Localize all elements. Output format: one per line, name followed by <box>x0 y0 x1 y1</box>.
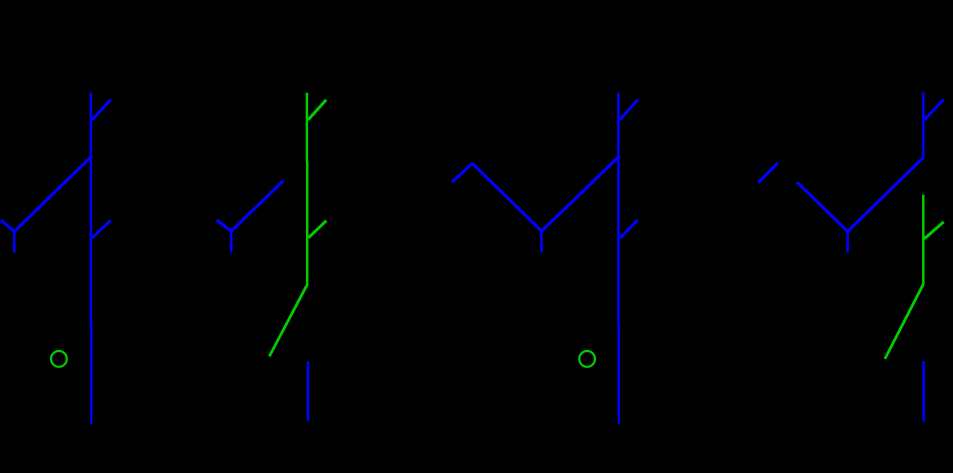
molecule 2 mid methyl bond (green) <box>308 221 326 238</box>
molecule 1 long diagonal bond <box>14 156 92 232</box>
molecule 4 bottom tail bond (blue) <box>922 361 925 422</box>
molecule 1 backbone chain upper segment <box>90 93 93 327</box>
molecule 3 oxygen atom O <box>579 351 595 367</box>
molecule 2 bottom tail bond (blue) <box>307 361 310 421</box>
molecule 4 long diagonal bond (blue) <box>848 158 924 232</box>
molecule 2 partial diagonal bond (blue) <box>231 181 283 231</box>
molecule 4 vertex stem bond (blue) <box>846 231 849 253</box>
molecule 4 mid methyl bond (green) <box>924 222 943 239</box>
molecule 3 top methyl bond <box>620 100 638 120</box>
molecule 4 top methyl bond (blue) <box>924 100 943 120</box>
molecule 4 up-left arm bond (blue) <box>797 182 848 231</box>
molecule 2 top methyl bond (green) <box>308 100 326 120</box>
molecule 2 vertex stem bond (blue) <box>230 231 233 253</box>
molecule 1 vertex stem bond <box>13 231 16 253</box>
molecule 3 backbone chain lower segment <box>618 325 621 424</box>
molecule 2 branch stub bond (blue) <box>217 220 232 231</box>
molecule 4 detached stub bond (blue) <box>758 163 778 183</box>
molecule 1 top methyl bond <box>92 100 111 120</box>
molecule 3 peak stub bond <box>452 163 472 182</box>
molecule 1 branch stub bond <box>1 220 14 232</box>
molecule 3 up-left arm bond <box>472 163 541 231</box>
molecule 2 lower diagonal bond (green) <box>269 285 307 356</box>
molecule 1 mid methyl bond <box>92 220 111 237</box>
molecule 3 vertex stem bond <box>540 231 543 253</box>
molecule 3 long diagonal bond <box>542 156 620 231</box>
molecule 4 backbone top segment (blue) <box>922 93 925 159</box>
molecule 2 backbone chain upper segment (green) <box>306 93 309 162</box>
molecule 3 backbone chain upper segment <box>617 93 620 326</box>
molecule 2 backbone chain lower segment (green) <box>306 161 309 286</box>
molecule 1 backbone chain lower segment <box>90 326 93 424</box>
molecule 4 backbone mid segment (green) <box>922 195 925 285</box>
molecule 4 lower diagonal bond (green) <box>885 284 923 359</box>
molecule 3 mid methyl bond <box>620 220 638 238</box>
molecule 1 oxygen atom O <box>51 351 67 367</box>
